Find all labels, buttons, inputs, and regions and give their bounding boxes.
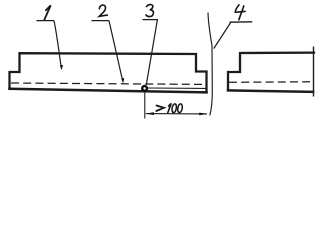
- label 1 leader arrowhead: [60, 65, 63, 70]
- label 4 digit: [235, 5, 245, 20]
- label 1 underline: [37, 20, 55, 22]
- label 3 digit: [146, 5, 153, 17]
- dimension arrowhead left: [145, 112, 154, 115]
- dimension arrowhead right: [199, 113, 208, 116]
- joint gap line (item 4): [208, 13, 212, 116]
- dimension text digit 1: [168, 104, 171, 113]
- label 4 underline: [230, 21, 253, 23]
- label 3 leader line: [146, 20, 157, 85]
- left slab centerline (dashed): [11, 83, 205, 84]
- dimension text digit 0 (second): [177, 103, 183, 112]
- left slab panel outline: [10, 53, 207, 92]
- dimension text digit 0 (first): [171, 104, 177, 113]
- label 1 digit: [44, 5, 50, 20]
- right slab panel outline: [228, 53, 314, 92]
- label 2 leader arrowhead: [121, 78, 124, 83]
- dimension text greater-than sign: [156, 106, 164, 112]
- anchor point circle: [142, 86, 147, 91]
- right slab break cut line: [313, 47, 315, 97]
- label 1 leader line: [54, 21, 61, 68]
- dimension line: [146, 113, 207, 115]
- label 3 underline: [143, 19, 159, 21]
- label 2 leader line: [109, 21, 123, 82]
- label 4 leader line: [214, 22, 231, 49]
- label 2 underline: [92, 20, 110, 22]
- label 2 digit: [99, 5, 107, 16]
- dimension extension line below anchor: [144, 93, 146, 119]
- right slab centerline (dashed): [229, 81, 310, 84]
- anchor tie line to panel edge: [147, 87, 206, 89]
